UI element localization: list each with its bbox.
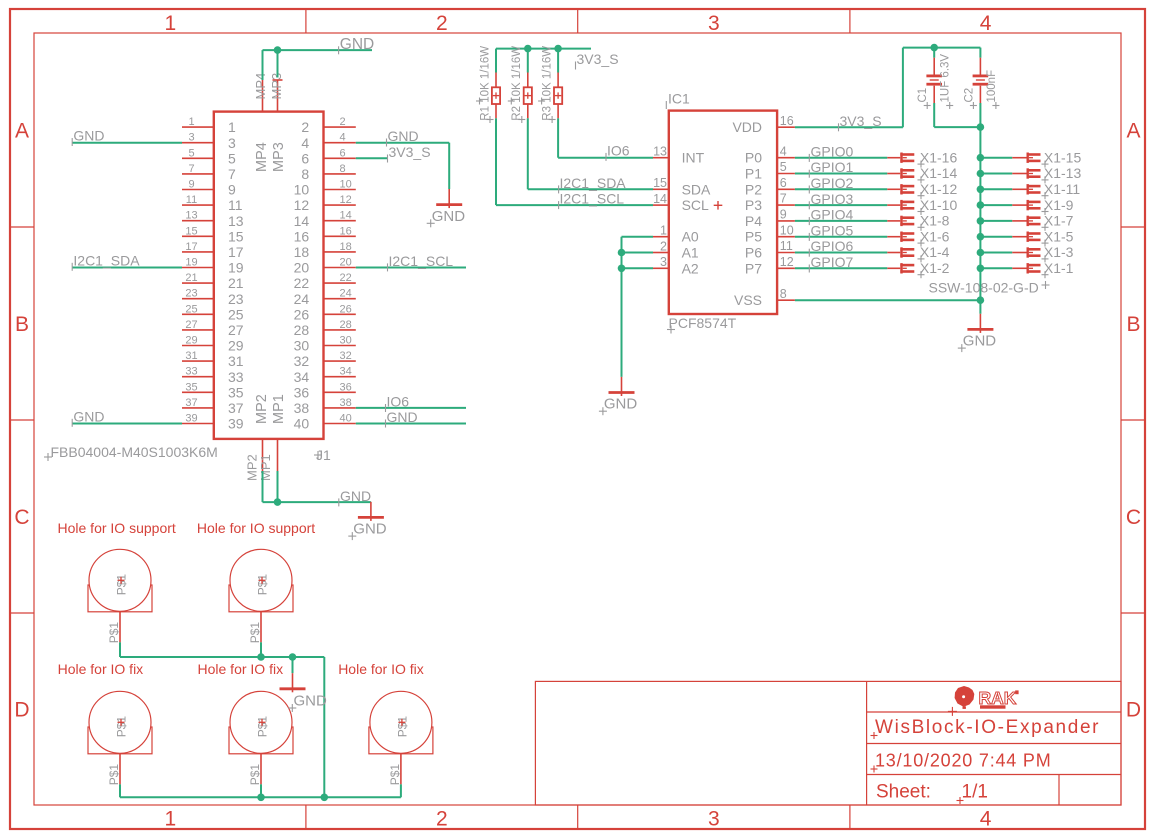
- svg-text:35: 35: [185, 381, 197, 393]
- svg-text:2: 2: [301, 119, 309, 135]
- svg-text:18: 18: [294, 244, 310, 260]
- svg-text:GND: GND: [294, 693, 328, 710]
- svg-text:IO6: IO6: [607, 142, 630, 158]
- svg-text:P4: P4: [745, 213, 762, 229]
- svg-text:MP1: MP1: [258, 454, 273, 481]
- svg-text:4: 4: [340, 132, 346, 144]
- svg-text:3: 3: [660, 255, 667, 269]
- svg-text:GPIO5: GPIO5: [811, 222, 854, 238]
- svg-text:9: 9: [188, 179, 194, 191]
- svg-text:VSS: VSS: [734, 292, 762, 308]
- svg-text:C2: C2: [963, 88, 975, 103]
- svg-text:D: D: [1126, 699, 1141, 722]
- svg-text:34: 34: [340, 366, 352, 378]
- svg-text:3: 3: [708, 807, 720, 830]
- svg-text:GPIO1: GPIO1: [811, 159, 854, 175]
- svg-text:A: A: [15, 120, 29, 143]
- svg-text:5: 5: [188, 147, 194, 159]
- svg-text:X1-15: X1-15: [1044, 149, 1082, 165]
- svg-text:8: 8: [340, 163, 346, 175]
- svg-text:GND: GND: [604, 396, 638, 413]
- svg-text:5: 5: [780, 160, 787, 174]
- svg-text:18: 18: [340, 241, 352, 253]
- svg-text:10: 10: [340, 179, 352, 191]
- svg-text:33: 33: [185, 366, 197, 378]
- svg-text:9: 9: [780, 208, 787, 222]
- svg-text:10: 10: [294, 182, 310, 198]
- svg-text:MP4: MP4: [253, 73, 268, 100]
- svg-text:6: 6: [340, 147, 346, 159]
- svg-text:11: 11: [186, 194, 197, 206]
- svg-text:34: 34: [294, 369, 310, 385]
- svg-text:GPIO3: GPIO3: [811, 191, 854, 207]
- svg-text:X1-14: X1-14: [920, 165, 958, 181]
- svg-text:38: 38: [340, 397, 352, 409]
- svg-text:P6: P6: [745, 245, 762, 261]
- svg-text:GND: GND: [73, 128, 104, 144]
- svg-text:2: 2: [660, 239, 667, 253]
- svg-text:31: 31: [228, 353, 244, 369]
- svg-text:GPIO7: GPIO7: [811, 254, 854, 270]
- svg-text:22: 22: [340, 272, 352, 284]
- svg-text:100nF: 100nF: [986, 70, 998, 103]
- svg-text:29: 29: [228, 338, 244, 354]
- svg-text:IC1: IC1: [668, 91, 690, 107]
- svg-text:6: 6: [780, 176, 787, 190]
- svg-text:MP1: MP1: [271, 394, 287, 424]
- svg-text:1: 1: [228, 119, 236, 135]
- svg-text:A1: A1: [682, 245, 699, 261]
- svg-text:3V3_S: 3V3_S: [389, 144, 431, 160]
- svg-text:X1-3: X1-3: [1044, 244, 1074, 260]
- svg-text:3: 3: [228, 135, 236, 151]
- svg-text:FBB04004-M40S1003K6M: FBB04004-M40S1003K6M: [51, 444, 218, 460]
- svg-text:X1-4: X1-4: [920, 244, 950, 260]
- svg-text:16: 16: [294, 228, 310, 244]
- svg-text:X1-10: X1-10: [920, 197, 958, 213]
- svg-text:15: 15: [228, 228, 244, 244]
- svg-text:21: 21: [185, 272, 197, 284]
- svg-text:X1-12: X1-12: [920, 181, 958, 197]
- svg-text:11: 11: [780, 239, 793, 253]
- svg-text:4: 4: [980, 807, 992, 830]
- svg-text:C: C: [1126, 506, 1141, 529]
- svg-text:IO6: IO6: [387, 394, 410, 410]
- svg-text:21: 21: [228, 275, 244, 291]
- svg-text:19: 19: [228, 260, 244, 276]
- svg-text:D: D: [14, 699, 29, 722]
- svg-text:P$1: P$1: [107, 622, 121, 644]
- svg-text:13: 13: [185, 210, 197, 222]
- svg-text:P7: P7: [745, 260, 762, 276]
- svg-text:4: 4: [301, 135, 309, 151]
- svg-text:24: 24: [294, 291, 310, 307]
- svg-text:GPIO2: GPIO2: [811, 175, 854, 191]
- svg-text:SDA: SDA: [682, 181, 711, 197]
- svg-text:GND: GND: [387, 409, 418, 425]
- svg-text:13/10/2020 7:44 PM: 13/10/2020 7:44 PM: [875, 751, 1052, 771]
- svg-text:2: 2: [436, 807, 448, 830]
- svg-text:1: 1: [164, 807, 176, 830]
- svg-text:P$1: P$1: [107, 764, 121, 786]
- svg-text:32: 32: [340, 350, 352, 362]
- svg-text:P$1: P$1: [388, 764, 402, 786]
- svg-text:1UF 6.3V: 1UF 6.3V: [940, 54, 952, 103]
- svg-text:R1 10K 1/16W: R1 10K 1/16W: [479, 46, 491, 121]
- svg-text:5: 5: [228, 150, 236, 166]
- svg-text:13: 13: [653, 145, 667, 159]
- svg-text:6: 6: [301, 150, 309, 166]
- svg-text:B: B: [1126, 313, 1140, 336]
- svg-text:1: 1: [660, 224, 667, 238]
- svg-text:39: 39: [228, 416, 244, 432]
- svg-text:25: 25: [185, 303, 197, 315]
- svg-text:X1-8: X1-8: [920, 213, 950, 229]
- svg-text:14: 14: [653, 192, 667, 206]
- svg-text:30: 30: [340, 335, 352, 347]
- svg-text:22: 22: [294, 275, 310, 291]
- svg-text:3V3_S: 3V3_S: [840, 113, 882, 129]
- svg-text:SCL: SCL: [682, 197, 709, 213]
- svg-text:4: 4: [980, 12, 992, 35]
- svg-text:PCF8574T: PCF8574T: [669, 315, 737, 331]
- svg-text:20: 20: [294, 260, 310, 276]
- svg-text:X1-16: X1-16: [920, 149, 958, 165]
- svg-text:4: 4: [780, 144, 787, 158]
- svg-text:9: 9: [228, 182, 236, 198]
- svg-text:GPIO6: GPIO6: [811, 238, 854, 254]
- svg-text:R3 10K 1/16W: R3 10K 1/16W: [542, 46, 554, 121]
- svg-text:28: 28: [294, 322, 310, 338]
- svg-text:A2: A2: [682, 260, 699, 276]
- svg-text:MP3: MP3: [271, 142, 287, 172]
- svg-text:RAK: RAK: [979, 688, 1017, 708]
- svg-text:8: 8: [780, 287, 787, 301]
- svg-text:8: 8: [301, 166, 309, 182]
- svg-text:30: 30: [294, 338, 310, 354]
- svg-text:10: 10: [780, 223, 794, 237]
- svg-text:37: 37: [185, 397, 197, 409]
- svg-text:P3: P3: [745, 197, 762, 213]
- svg-text:23: 23: [228, 291, 244, 307]
- svg-text:11: 11: [228, 197, 243, 213]
- svg-text:2: 2: [340, 116, 346, 128]
- svg-text:3: 3: [708, 12, 720, 35]
- svg-text:Hole for IO support: Hole for IO support: [58, 520, 176, 536]
- svg-text:3: 3: [188, 132, 194, 144]
- svg-text:40: 40: [294, 416, 310, 432]
- svg-text:I2C1_SCL: I2C1_SCL: [560, 191, 625, 207]
- svg-text:GND: GND: [963, 333, 997, 350]
- svg-text:12: 12: [780, 255, 794, 269]
- svg-text:GND: GND: [388, 128, 419, 144]
- svg-text:X1-13: X1-13: [1044, 165, 1082, 181]
- svg-text:MP4: MP4: [254, 142, 270, 172]
- svg-text:P1: P1: [745, 166, 762, 182]
- svg-text:GPIO4: GPIO4: [811, 207, 854, 223]
- svg-text:MP2: MP2: [254, 394, 270, 424]
- svg-text:Hole for IO fix: Hole for IO fix: [58, 661, 144, 677]
- svg-text:1/1: 1/1: [962, 782, 988, 803]
- svg-text:Hole for IO fix: Hole for IO fix: [338, 661, 424, 677]
- svg-text:P0: P0: [745, 150, 762, 166]
- svg-text:7: 7: [780, 192, 787, 206]
- svg-text:Sheet:: Sheet:: [876, 782, 931, 803]
- svg-text:X1-5: X1-5: [1044, 228, 1074, 244]
- svg-text:X1-6: X1-6: [920, 228, 950, 244]
- svg-text:40: 40: [340, 413, 352, 425]
- svg-text:14: 14: [340, 210, 352, 222]
- svg-text:7: 7: [228, 166, 236, 182]
- svg-text:X1-11: X1-11: [1044, 181, 1081, 197]
- svg-text:WisBlock-IO-Expander: WisBlock-IO-Expander: [875, 717, 1100, 738]
- svg-text:33: 33: [228, 369, 244, 385]
- svg-text:GND: GND: [432, 208, 466, 225]
- svg-text:35: 35: [228, 384, 244, 400]
- svg-text:GND: GND: [353, 521, 387, 538]
- svg-text:I2C1_SDA: I2C1_SDA: [73, 252, 140, 268]
- svg-text:P2: P2: [745, 181, 762, 197]
- svg-text:VDD: VDD: [732, 119, 762, 135]
- svg-text:I2C1_SDA: I2C1_SDA: [560, 175, 627, 191]
- svg-text:X1-2: X1-2: [920, 260, 950, 276]
- svg-text:31: 31: [185, 350, 197, 362]
- svg-text:2: 2: [436, 12, 448, 35]
- svg-text:19: 19: [185, 257, 197, 269]
- svg-text:16: 16: [780, 114, 794, 128]
- svg-text:SSW-108-02-G-D: SSW-108-02-G-D: [929, 280, 1039, 296]
- svg-text:17: 17: [185, 241, 197, 253]
- svg-text:37: 37: [228, 400, 244, 416]
- svg-text:14: 14: [294, 213, 310, 229]
- svg-text:GPIO0: GPIO0: [811, 143, 854, 159]
- svg-text:15: 15: [185, 225, 197, 237]
- svg-text:P5: P5: [745, 229, 762, 245]
- svg-text:13: 13: [228, 213, 244, 229]
- svg-text:INT: INT: [682, 150, 705, 166]
- svg-text:Hole for IO support: Hole for IO support: [197, 520, 315, 536]
- svg-text:X1-1: X1-1: [1044, 260, 1074, 276]
- svg-text:27: 27: [185, 319, 197, 331]
- svg-text:36: 36: [340, 381, 352, 393]
- svg-text:Hole for IO fix: Hole for IO fix: [198, 661, 284, 677]
- svg-text:3V3_S: 3V3_S: [577, 51, 619, 67]
- svg-text:23: 23: [185, 288, 197, 300]
- svg-text:GND: GND: [340, 36, 374, 53]
- svg-text:26: 26: [294, 306, 310, 322]
- svg-text:GND: GND: [73, 408, 104, 424]
- svg-text:P$1: P$1: [248, 622, 262, 644]
- svg-text:X1-7: X1-7: [1044, 213, 1074, 229]
- svg-text:26: 26: [340, 303, 352, 315]
- svg-text:15: 15: [653, 176, 667, 190]
- svg-text:C1: C1: [917, 88, 929, 103]
- svg-text:38: 38: [294, 400, 310, 416]
- svg-text:27: 27: [228, 322, 244, 338]
- svg-text:16: 16: [340, 225, 352, 237]
- svg-text:1: 1: [164, 12, 176, 35]
- svg-text:P$1: P$1: [248, 764, 262, 786]
- svg-text:I2C1_SCL: I2C1_SCL: [389, 253, 454, 269]
- svg-text:B: B: [15, 313, 29, 336]
- svg-text:36: 36: [294, 384, 310, 400]
- svg-text:29: 29: [185, 335, 197, 347]
- svg-text:25: 25: [228, 306, 244, 322]
- svg-text:X1-9: X1-9: [1044, 197, 1074, 213]
- svg-text:A: A: [1126, 120, 1140, 143]
- svg-text:12: 12: [294, 197, 310, 213]
- svg-text:28: 28: [340, 319, 352, 331]
- svg-text:A0: A0: [682, 229, 699, 245]
- svg-text:GND: GND: [340, 488, 371, 504]
- svg-text:32: 32: [294, 353, 310, 369]
- svg-text:R2 10K 1/16W: R2 10K 1/16W: [511, 46, 523, 121]
- svg-text:12: 12: [340, 194, 352, 206]
- svg-text:17: 17: [228, 244, 244, 260]
- svg-text:39: 39: [185, 413, 197, 425]
- svg-text:7: 7: [188, 163, 194, 175]
- svg-text:20: 20: [340, 257, 352, 269]
- svg-text:C: C: [14, 506, 29, 529]
- svg-text:1: 1: [188, 116, 194, 128]
- svg-text:24: 24: [340, 288, 352, 300]
